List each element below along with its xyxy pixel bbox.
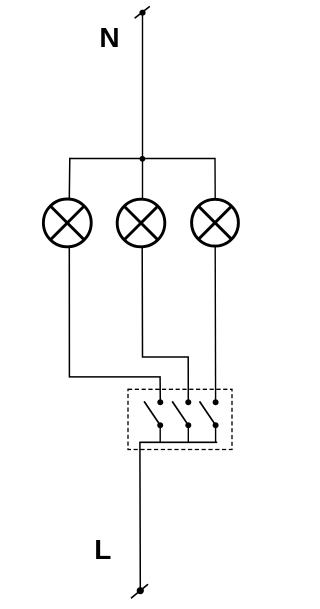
svg-text:N: N [99, 22, 119, 53]
svg-text:L: L [94, 534, 111, 565]
